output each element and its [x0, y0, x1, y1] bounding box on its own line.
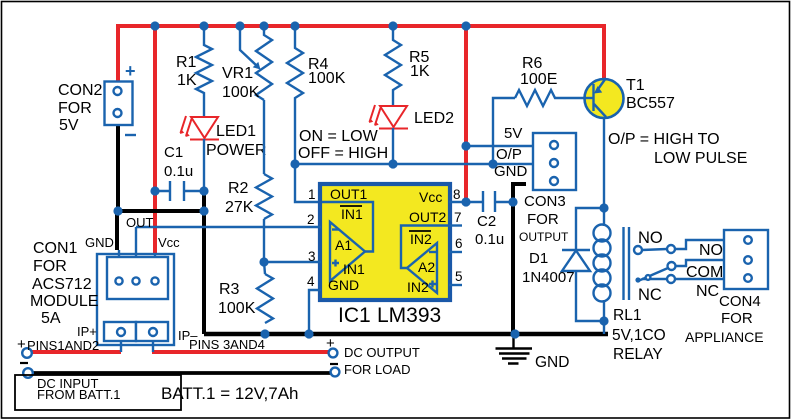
svg-text:CON4: CON4 — [719, 293, 761, 310]
connector CON3 — [519, 133, 576, 244]
svg-text:RELAY: RELAY — [613, 346, 663, 363]
wire upper ground bus — [117, 209, 204, 213]
wire bottom ground bus — [204, 332, 608, 336]
terminal DC output - — [330, 362, 410, 377]
terminal DC input + — [17, 336, 32, 358]
svg-text:3: 3 — [308, 249, 316, 264]
op-amp A2 — [401, 226, 449, 296]
svg-text:IN1: IN1 — [341, 206, 363, 222]
svg-text:1K: 1K — [410, 63, 430, 80]
svg-text:4: 4 — [307, 274, 315, 289]
svg-text:1K: 1K — [177, 72, 197, 89]
wire +5V top rail with CON2 and T1 drops — [118, 26, 604, 82]
note O/P pulse — [608, 131, 747, 167]
svg-text:PINS 3AND4: PINS 3AND4 — [189, 337, 265, 352]
svg-text:FOR: FOR — [527, 211, 559, 228]
resistor R1 — [176, 26, 212, 116]
svg-text:5V: 5V — [504, 125, 522, 142]
wire DC input - to DC output - (black) — [33, 371, 332, 375]
svg-text:LM393: LM393 — [377, 304, 441, 327]
svg-text:OUT: OUT — [126, 215, 154, 230]
LED LED2 — [369, 105, 454, 129]
svg-text:OUT2: OUT2 — [409, 209, 447, 225]
svg-text:R2: R2 — [228, 180, 249, 197]
pin 5 — [449, 269, 463, 285]
svg-text:NO: NO — [638, 229, 663, 247]
node dot R2/R3 pin3 — [259, 257, 268, 266]
svg-text:POWER: POWER — [206, 142, 266, 159]
wire 5V to CON3 — [466, 145, 533, 147]
node dots upper ground bus — [113, 206, 122, 215]
pin 3 — [265, 249, 321, 264]
svg-text:NO: NO — [699, 242, 723, 259]
wire output node to IC pin 1 — [295, 164, 321, 202]
op-amp A1 — [322, 202, 373, 293]
wire IP- to DC output + (red) — [152, 350, 331, 354]
svg-text:ACS712: ACS712 — [32, 276, 92, 293]
wire O/P vertical and R6 feed — [493, 98, 515, 164]
resistor R4 — [287, 26, 346, 164]
svg-text:FOR: FOR — [33, 258, 67, 275]
wire LED1 cathode to C1 node — [203, 139, 205, 191]
ground GND symbol — [496, 334, 570, 371]
pin 8 — [449, 187, 466, 202]
wire R2 bottom to pin3 node — [264, 219, 265, 274]
wire ground drop to CON1 GND pin — [115, 211, 119, 250]
svg-text:CON3: CON3 — [524, 193, 566, 210]
svg-text:R1: R1 — [176, 54, 197, 71]
node dots C1 — [150, 186, 159, 195]
svg-text:CON2: CON2 — [58, 82, 103, 99]
wire CON2 minus to ground bus (black) — [116, 126, 120, 211]
svg-text:+: + — [326, 335, 335, 352]
svg-text:0.1u: 0.1u — [164, 163, 193, 180]
svg-text:CON1: CON1 — [33, 240, 78, 257]
svg-text:5A: 5A — [41, 310, 61, 327]
pin 6 — [449, 236, 463, 252]
capacitor C1 — [155, 144, 204, 201]
svg-text:100K: 100K — [218, 300, 256, 317]
svg-text:LED2: LED2 — [414, 110, 454, 127]
relay contact NO — [634, 229, 724, 259]
resistor R2 — [225, 174, 272, 219]
terminal DC input - — [20, 363, 33, 378]
svg-text:8: 8 — [453, 187, 461, 202]
wire relay node to D1 branch — [576, 208, 604, 250]
svg-text:O/P = HIGH TO: O/P = HIGH TO — [608, 131, 720, 148]
capacitor C2 — [466, 191, 513, 248]
svg-text:FROM BATT.1: FROM BATT.1 — [37, 387, 121, 402]
svg-text:OFF = HIGH: OFF = HIGH — [298, 145, 388, 162]
svg-text:Vcc: Vcc — [419, 189, 442, 205]
svg-text:NC: NC — [638, 286, 662, 304]
svg-text:A2: A2 — [418, 259, 435, 275]
svg-text:LED1: LED1 — [216, 123, 256, 140]
svg-text:OUT1: OUT1 — [330, 186, 368, 202]
terminal DC output + — [326, 335, 420, 360]
node dots output line — [290, 159, 299, 168]
label IC1 LM393 — [338, 304, 441, 327]
wire O/P to CON3 — [493, 163, 533, 165]
svg-text:100K: 100K — [308, 70, 346, 87]
wire Vcc drop to CON1 module — [153, 26, 157, 257]
svg-text:LOW PULSE: LOW PULSE — [654, 150, 747, 167]
svg-text:+: + — [125, 61, 136, 81]
svg-text:O/P: O/P — [496, 146, 522, 163]
wire IP+ pin down — [120, 341, 122, 352]
connector CON2 — [58, 61, 136, 135]
svg-text:IP+: IP+ — [77, 324, 97, 339]
wire CON1 Vcc stub — [154, 253, 156, 258]
svg-text:MODULE: MODULE — [30, 293, 98, 310]
svg-text:R3: R3 — [219, 281, 240, 298]
svg-text:NC: NC — [696, 283, 719, 300]
svg-text:T1: T1 — [626, 77, 645, 94]
svg-text:IC1: IC1 — [338, 304, 371, 327]
svg-text:RL1: RL1 — [613, 307, 641, 324]
module CON1 ACS712 — [30, 215, 198, 345]
IC op-amp U1 LM393 body — [320, 184, 450, 300]
node dots relay — [599, 203, 608, 212]
svg-text:DC OUTPUT: DC OUTPUT — [344, 345, 420, 360]
wire IP- pin down — [152, 341, 154, 352]
svg-text:C2: C2 — [477, 213, 496, 230]
svg-text:27K: 27K — [225, 199, 254, 216]
note ON/OFF — [298, 128, 388, 162]
svg-text:Vcc: Vcc — [158, 235, 180, 250]
svg-text:7: 7 — [454, 210, 462, 225]
svg-text:6: 6 — [455, 236, 463, 251]
connector CON4 — [685, 230, 768, 345]
svg-text:IN2: IN2 — [407, 279, 429, 295]
label DC INPUT box — [15, 375, 181, 410]
diode D1 1N4007 — [522, 250, 604, 321]
resistor R3 — [218, 274, 273, 323]
svg-text:IN1: IN1 — [343, 261, 365, 277]
svg-text:PINS1AND2: PINS1AND2 — [27, 338, 99, 353]
relay RL1 coil — [594, 208, 666, 363]
svg-text:1N4007: 1N4007 — [522, 269, 575, 286]
relay contact COM arm — [635, 260, 724, 283]
potentiometer VR1 — [222, 26, 272, 101]
wire +5V drop to IC pin 8 — [464, 26, 468, 202]
svg-text:FOR LOAD: FOR LOAD — [344, 362, 410, 377]
svg-text:VR1: VR1 — [222, 65, 253, 82]
svg-text:2: 2 — [307, 212, 315, 227]
svg-text:1: 1 — [308, 187, 316, 202]
svg-text:100E: 100E — [520, 71, 557, 88]
svg-text:GND: GND — [535, 354, 569, 371]
label 5V O/P GND — [494, 125, 528, 180]
svg-text:+: + — [17, 336, 26, 353]
node dots pin8/C2 — [461, 197, 470, 206]
pin 2 — [136, 212, 321, 227]
svg-text:OUTPUT: OUTPUT — [519, 230, 569, 244]
svg-text:5V,1CO: 5V,1CO — [612, 327, 666, 344]
wire LED2 cathode to output node — [392, 128, 394, 164]
wire DC input + to IP+ (red) — [30, 350, 121, 354]
svg-text:FOR: FOR — [58, 100, 92, 117]
node comparator output line — [295, 163, 493, 165]
wire CON1 GND stub — [118, 250, 120, 258]
svg-text:GND: GND — [494, 163, 528, 180]
wire CON1 OUT stub — [135, 227, 137, 258]
node dots on 5V rail — [150, 21, 159, 30]
svg-text:A1: A1 — [335, 237, 352, 253]
svg-text:BC557: BC557 — [626, 95, 675, 112]
svg-text:R6: R6 — [522, 55, 543, 72]
svg-text:D1: D1 — [529, 250, 548, 267]
resistor R6 — [515, 55, 585, 106]
svg-text:ON = LOW: ON = LOW — [299, 128, 379, 145]
node dot 5V CON3 — [461, 141, 470, 150]
svg-text:FOR: FOR — [721, 310, 753, 327]
wire CON3 GND to ground bus (black) — [513, 184, 526, 334]
pin 4 — [307, 274, 321, 334]
svg-text:GND: GND — [85, 235, 114, 250]
svg-text:C1: C1 — [164, 144, 183, 161]
pin 7 — [449, 210, 462, 226]
node dots bottom bus — [260, 329, 269, 338]
svg-text:100K: 100K — [222, 84, 260, 101]
svg-text:IN2: IN2 — [410, 231, 432, 247]
svg-text:0.1u: 0.1u — [475, 231, 504, 248]
wire T1 collector to relay node — [603, 117, 605, 208]
svg-text:GND: GND — [328, 277, 359, 293]
svg-text:5V: 5V — [59, 117, 79, 134]
transistor Q1 T1 BC557 — [585, 77, 676, 118]
resistor R5 — [385, 26, 430, 106]
wire LED1/C1 node down to bottom ground bus (black) — [202, 191, 206, 334]
svg-text:5: 5 — [455, 269, 463, 284]
wire VR1 bottom to R2 — [263, 100, 265, 174]
svg-text:BATT.1 = 12V,7Ah: BATT.1 = 12V,7Ah — [161, 384, 299, 403]
relay contact NC — [638, 275, 724, 304]
LED LED1 — [180, 116, 266, 159]
svg-text:APPLIANCE: APPLIANCE — [685, 329, 764, 345]
